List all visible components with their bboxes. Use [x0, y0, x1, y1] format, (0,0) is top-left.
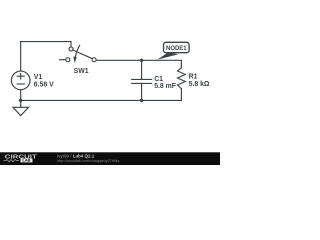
- wire top-left vertical from top rail to V1: [20, 42, 22, 71]
- wire top rail left segment to switch drop: [21, 42, 71, 47]
- wire bottom rail: [21, 99, 182, 101]
- svg-text:http://circuitlab.com/c/nugqw4: http://circuitlab.com/c/nugqw4y27h9kz: [57, 159, 119, 163]
- svg-text:NODE1: NODE1: [166, 46, 187, 52]
- wire switch to right corner (top right rail): [96, 60, 181, 67]
- footer bar: [0, 152, 220, 165]
- footer logo LAB box: [21, 159, 33, 163]
- footer logo resistor squiggle: [4, 159, 20, 161]
- wire V1 bottom to ground junction: [20, 90, 22, 101]
- node junction top of C1: [140, 59, 143, 62]
- voltage source V1: [11, 71, 30, 90]
- svg-text:LAB: LAB: [23, 158, 31, 163]
- svg-text:R1: R1: [189, 74, 198, 81]
- svg-text:5.8 kΩ: 5.8 kΩ: [189, 81, 210, 88]
- svg-text:V1: V1: [34, 74, 43, 81]
- ground: [13, 100, 29, 115]
- svg-text:6.58 V: 6.58 V: [34, 82, 54, 89]
- svg-text:5.8 mF: 5.8 mF: [154, 83, 176, 90]
- node flag NODE1: [157, 42, 189, 59]
- svg-text:SW1: SW1: [74, 68, 89, 75]
- node junction at V1/ground: [19, 99, 22, 102]
- switch SW1: [60, 45, 97, 63]
- svg-text:ivyt99 / Lab4 Q2.1: ivyt99 / Lab4 Q2.1: [57, 153, 95, 158]
- svg-text:C1: C1: [154, 76, 163, 83]
- resistor R1: [178, 68, 186, 101]
- capacitor C1: [132, 60, 152, 100]
- node junction bottom of C1: [140, 99, 143, 102]
